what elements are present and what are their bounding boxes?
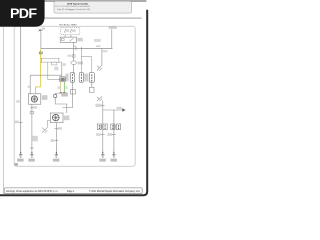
switch S1 label [60, 78, 64, 81]
relay K1 coil [61, 38, 64, 40]
svg-text:Page 1: Page 1 [67, 191, 75, 193]
connector label left wire [15, 121, 19, 124]
wire bus corner right [111, 47, 113, 50]
offpage arrow down-left [97, 65, 102, 70]
ground G5 [112, 152, 115, 158]
svg-text:domingo, 20 de septiembre de 2: domingo, 20 de septiembre de 2015 05:29:… [6, 190, 58, 193]
header box [54, 1, 132, 13]
page left border [2, 27, 4, 194]
connector tick motor drop [30, 107, 33, 109]
ground G1 label [17, 159, 23, 162]
motor M1 spokes [31, 96, 37, 102]
splice label right drop1 [96, 133, 101, 136]
riser label A/C [109, 26, 117, 29]
connector label motor drop [33, 106, 37, 108]
bus drop label [103, 50, 108, 52]
connector label pump drop [58, 127, 62, 130]
connector tick on bus C1 [75, 47, 77, 50]
connector label pump drop2 [51, 139, 55, 142]
svg-text:2010 Toyota Corolla: 2010 Toyota Corolla [67, 3, 88, 6]
ground G2 [30, 152, 33, 158]
wire right drop2 [113, 110, 115, 154]
relay K1 box [60, 37, 76, 42]
connector C5 inner label [114, 125, 116, 129]
connector tick pump drop [55, 128, 59, 130]
fuse F2 [70, 29, 71, 33]
wire pump drop [55, 123, 57, 154]
wire pump to arrow [47, 121, 50, 127]
connector box A2 [79, 73, 83, 83]
junction ring J1 [54, 94, 57, 97]
junction tick green [63, 91, 65, 93]
page top border [44, 0, 146, 2]
connector pair C6 [117, 124, 121, 130]
wire diode to cluster [73, 65, 75, 74]
bus label left [73, 45, 76, 47]
svg-text:PDF: PDF [10, 6, 37, 22]
connector box A3 [89, 73, 94, 83]
wire relay to bus [73, 42, 75, 48]
connector box B1 [70, 90, 75, 95]
ground G3 [55, 152, 58, 158]
wire junction to pump [55, 98, 67, 113]
fuse block dashed box [61, 28, 80, 35]
connector label right drop1 [95, 104, 101, 107]
diode box D1 [71, 61, 77, 65]
connector box motor drop [30, 111, 34, 114]
connector box A1 [70, 73, 74, 83]
connector tick left wire [19, 121, 23, 123]
connector A3 pins [91, 75, 93, 82]
connector box B2 [89, 87, 94, 92]
wire fuse1 to relay [64, 35, 66, 38]
pump P1 label right [64, 116, 70, 121]
node bus B+ [41, 48, 112, 50]
connector A23 label [84, 74, 88, 82]
motor M1 symbol [31, 96, 37, 102]
fuse F1 [65, 29, 66, 33]
wire label mid smudge [54, 67, 58, 71]
diode box label [78, 62, 83, 65]
bus label right [96, 45, 101, 47]
page right+bottom border [0, 10, 147, 196]
diagram frame [14, 26, 135, 166]
ground G5 label [111, 159, 117, 162]
wire color label green [65, 86, 67, 89]
connector A1 pins [71, 74, 73, 81]
connector A1 label [66, 74, 69, 82]
wire motor drop [31, 104, 33, 153]
splice tick right drop1 [101, 134, 105, 136]
splice label motor drop [32, 136, 37, 142]
connector tick mid [72, 55, 75, 57]
wire horizontal h2 [30, 75, 62, 94]
connector tick pump drop2 [55, 140, 59, 142]
wire switch to junction [55, 93, 62, 94]
fuse F1 value label [66, 29, 69, 31]
pump P1 label top [61, 93, 68, 97]
relay K1 contact [70, 38, 74, 41]
wire tan below switch [60, 82, 62, 92]
stray label mid right [94, 39, 101, 42]
connector A2 pins [80, 74, 82, 81]
wire bus tick2 drop [80, 49, 82, 74]
motor M1 label [42, 95, 48, 100]
wire right drop1 [102, 101, 104, 154]
footer box [4, 188, 142, 194]
connector pair C3 [97, 124, 101, 130]
wire green below switch [63, 82, 65, 92]
PDF badge [0, 0, 45, 27]
pump P1 symbol [53, 114, 60, 121]
riser label smudge [63, 63, 66, 66]
relay K1 label [77, 38, 82, 42]
splice label right drop2 [107, 133, 112, 136]
svg-text:HOT AT ALL TIMES: HOT AT ALL TIMES [59, 24, 77, 27]
wire yellow Y1 jog [36, 87, 41, 94]
wire fuse2 to relay [70, 35, 72, 38]
svg-text:2010 SYSTEM WIRING DIAGRAMS: 2010 SYSTEM WIRING DIAGRAMS [55, 5, 91, 8]
svg-text:Fig. 51: Defoggers Circuit (1: Fig. 51: Defoggers Circuit (1 of 2) [58, 8, 91, 11]
connector pair C4 [103, 124, 107, 130]
connector C5 pins [113, 125, 119, 129]
wire riser right [111, 29, 113, 48]
svg-text:© 2011 Mitchell Repair Informa: © 2011 Mitchell Repair Information Compa… [89, 190, 140, 193]
wire right horizontal [103, 109, 123, 111]
wire label left mid [16, 100, 19, 103]
offpage arrow W1 label [42, 28, 45, 30]
switch S1 box [60, 77, 66, 82]
splice tick right drop2 [112, 134, 116, 136]
motor M1 pin label [28, 86, 30, 88]
ground G2 label [28, 159, 34, 162]
connector box on yellow wire [40, 52, 43, 54]
motor M1 box [28, 94, 41, 104]
ladder end tick right [58, 58, 60, 63]
pump P1 spokes [53, 114, 60, 121]
header rule [45, 17, 142, 19]
connector tick right drop1 [101, 105, 105, 107]
wire L to pump [62, 107, 72, 109]
junction tick tan [60, 91, 62, 93]
offpage arrow lower right [97, 96, 102, 101]
ground G3 label [53, 159, 59, 162]
pump P1 box [50, 113, 63, 123]
wire horizontal h3 [48, 79, 60, 81]
component box on ladder [51, 62, 57, 65]
ground G4 [101, 152, 104, 158]
frame corner label [15, 163, 18, 165]
ground G4 label [99, 159, 105, 162]
offpage arrow W1 [39, 29, 43, 32]
ladder wire upper [41, 58, 59, 60]
wire long left ground run [20, 27, 22, 154]
wire cluster down [71, 82, 73, 108]
connector tick on bus C2 [80, 47, 82, 50]
wire yellow Y2 [47, 62, 49, 80]
wire relay out to connector [73, 49, 75, 62]
wire bus drop right [101, 49, 103, 66]
connector C3 pins [99, 125, 105, 129]
connector pair C5 [111, 124, 115, 130]
wire yellow Y1 upper [40, 49, 42, 87]
offpage arrow right label [117, 107, 122, 109]
offpage arrow pump left [42, 127, 48, 132]
ground G1 [19, 152, 22, 158]
wire A3 down [91, 82, 93, 87]
ladder wire lower [41, 61, 62, 63]
fuse F2 value label [72, 29, 76, 31]
wire ladder to switch [61, 62, 63, 76]
ladder end tick left [41, 58, 43, 63]
splice tick motor drop [30, 147, 34, 149]
wire to connector box3 [81, 57, 92, 73]
wire arrow to bus corner [40, 32, 42, 49]
connector label mid [67, 55, 71, 57]
connector C3 inner label [100, 125, 102, 129]
wire color label tan [58, 86, 60, 89]
offpage arrow right [122, 108, 125, 111]
